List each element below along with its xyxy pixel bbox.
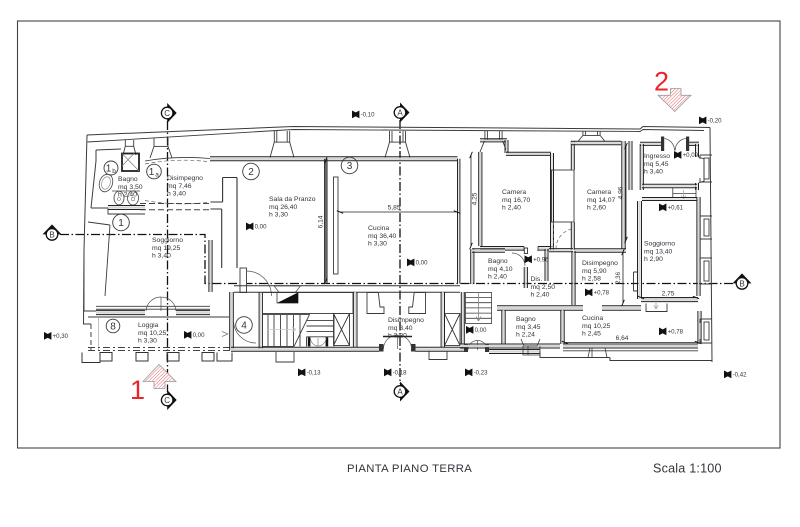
svg-text:4,96: 4,96 [618, 186, 625, 199]
elevation -0,20 [699, 117, 722, 125]
svg-text:Bagno: Bagno [118, 176, 138, 183]
svg-text:a: a [155, 172, 159, 179]
svg-text:h 2,60: h 2,60 [587, 205, 606, 212]
elevation +0,09 [674, 151, 699, 159]
svg-text:+0,78: +0,78 [594, 290, 610, 297]
section marker C top [161, 103, 176, 123]
vault dashed curve top [145, 160, 207, 164]
outer wall top (double slanted) [87, 127, 710, 136]
Ingresso north wall west bit [640, 143, 663, 145]
svg-text:+0,96: +0,96 [533, 257, 549, 264]
Camera1 north wall low part [506, 153, 551, 155]
svg-text:0,00: 0,00 [193, 332, 205, 339]
demolition dashed band below disimpegno [140, 204, 210, 210]
svg-text:Disimpegno: Disimpegno [167, 175, 203, 182]
stepped wall between Disimpegno and Sala [211, 178, 238, 269]
extra sill line under cucina right [563, 350, 698, 352]
wall Sala/Cucina divider [325, 159, 327, 284]
dimension 6,64 [562, 335, 701, 346]
Loggia left dashed edge [90, 324, 92, 351]
label Camera 14,07 [587, 189, 616, 212]
Soggiorno south wall west part [96, 311, 145, 313]
svg-text:B: B [739, 279, 744, 288]
elevation 0,00 loggia [184, 331, 205, 339]
wall under Bagno fixtures [108, 206, 145, 208]
porch step below stairs [276, 352, 294, 362]
svg-text:h 3,30: h 3,30 [269, 212, 288, 219]
svg-text:h 3,20: h 3,20 [388, 333, 407, 340]
Bagno4,10 east wall [525, 267, 527, 288]
door arc room 4 from Loggia [234, 321, 257, 344]
svg-text:h 2,90: h 2,90 [644, 256, 663, 263]
svg-text:+0,61: +0,61 [668, 205, 684, 212]
svg-text:+0,09: +0,09 [683, 152, 699, 159]
Bagno4,10 west wall [471, 249, 473, 284]
svg-text:mq 19,25: mq 19,25 [152, 245, 181, 252]
svg-text:mq 14,07: mq 14,07 [587, 197, 616, 204]
outer south wall right section [540, 352, 712, 361]
washbasin oval [97, 172, 115, 193]
Camera1 south wall [480, 247, 524, 249]
step below A axis [429, 352, 447, 360]
section marker C bottom [161, 390, 176, 410]
svg-text:2,75: 2,75 [662, 291, 675, 298]
svg-text:C: C [164, 396, 170, 405]
wall west of Bagno 3,45 [503, 310, 505, 344]
room number 8 [106, 319, 120, 333]
svg-text:h 3,40: h 3,40 [152, 253, 171, 260]
outer wall right [710, 128, 712, 363]
elevation +0,78 a [585, 289, 610, 297]
stair landing rectangle [263, 293, 354, 314]
stair flight A treads [263, 315, 311, 347]
svg-text:h 3,30: h 3,30 [138, 338, 157, 345]
svg-text:B: B [49, 230, 54, 239]
elevation -0,18 [384, 369, 407, 377]
svg-text:Disimpegno: Disimpegno [388, 317, 424, 324]
elevation -0,23 [465, 369, 488, 377]
closet shaft between cameras [552, 170, 575, 222]
svg-text:5,85: 5,85 [388, 205, 401, 212]
svg-text:PIANTA PIANO TERRA: PIANTA PIANO TERRA [347, 463, 472, 475]
wall between shaft and small stair [462, 292, 464, 344]
entry double door arcs pointed [665, 139, 686, 151]
loggia pillar d [202, 353, 214, 362]
dimension 4,25 [468, 152, 479, 249]
window right wall at Soggiorno lower [700, 258, 712, 284]
svg-text:mq 7,46: mq 7,46 [167, 183, 192, 190]
Camera2 west wall top [572, 141, 574, 170]
wall Soggiorno east [210, 240, 212, 292]
svg-text:-0,42: -0,42 [733, 372, 748, 379]
wall Disimpegno/Soggiorno [638, 201, 640, 299]
Ingresso south wall [642, 185, 697, 187]
elevation +0,78 b [659, 328, 684, 336]
chimney flue above Sala da Pranzo [270, 131, 294, 158]
cavity wall left of ingresso [630, 141, 632, 190]
Camera2 west wall bottom [572, 222, 574, 250]
Disimpegno5,90 north wall [549, 249, 573, 251]
Camera1 south wall east bit [538, 247, 553, 249]
Loggia bottom dashed edge with pillars [88, 348, 230, 351]
svg-text:1: 1 [118, 218, 124, 229]
svg-text:h 3,40: h 3,40 [167, 191, 186, 198]
label Disimpegno 5,90 [582, 260, 618, 283]
section line A-A vertical [399, 120, 401, 384]
section marker A bottom [394, 382, 409, 402]
label Cucina 36,40 [368, 225, 397, 248]
room number 1b [104, 161, 118, 175]
svg-text:h 3,40: h 3,40 [644, 169, 663, 176]
svg-text:h 2,40: h 2,40 [531, 292, 550, 299]
svg-text:Scala 1:100: Scala 1:100 [653, 462, 722, 476]
svg-text:-0,23: -0,23 [474, 370, 489, 377]
Ingresso west wall [641, 144, 643, 190]
elevation +0,30 [44, 332, 69, 340]
Camera2 east wall [623, 141, 625, 249]
small stair right treads [466, 293, 492, 324]
svg-text:-0,20: -0,20 [708, 118, 723, 125]
section line B-B jogged [60, 235, 734, 284]
svg-text:A: A [397, 387, 403, 396]
svg-text:3: 3 [347, 161, 353, 172]
wall Bagno/Cucina [562, 310, 564, 344]
Soggiorno west slanted wall [84, 222, 110, 311]
room number 4 [236, 317, 253, 334]
wall north of Cucina right [602, 307, 641, 310]
label Disimpegno 3,40 [388, 317, 424, 340]
svg-text:mq 10,25: mq 10,25 [582, 323, 611, 330]
window right wall at Ingresso [700, 155, 712, 182]
niche fixture 1 [367, 293, 384, 314]
window right wall at Cucina [700, 319, 712, 343]
svg-text:h 2,40: h 2,40 [502, 205, 521, 212]
svg-text:-0,18: -0,18 [393, 370, 408, 377]
south wall east of main door [415, 348, 465, 350]
svg-text:-0,13: -0,13 [307, 370, 322, 377]
svg-text:6,14: 6,14 [318, 215, 325, 228]
svg-text:0,00: 0,00 [475, 327, 487, 334]
label Camera 16,70 [502, 189, 531, 212]
elevation +0,61 [659, 204, 684, 212]
drawing border frame [18, 21, 781, 448]
wall band below B axis (stair hall north) [234, 286, 460, 292]
svg-text:+0,30: +0,30 [53, 333, 69, 340]
wc bowl 1 [114, 191, 124, 205]
svg-text:1: 1 [130, 375, 145, 405]
dimension 4,96 [618, 143, 630, 243]
svg-text:Soggiorno: Soggiorno [152, 237, 183, 244]
Soggiorno east wall [698, 197, 700, 296]
svg-text:1: 1 [149, 167, 155, 178]
label Bagno 3,45 [516, 316, 541, 339]
chimney flue above Cucina [385, 131, 410, 158]
door jamb stub Bagno/Dis [524, 248, 527, 254]
label Bagno 3,50 [118, 176, 143, 199]
Soggiorno north wall [642, 198, 697, 200]
outer wall left [84, 135, 92, 324]
stair flight B treads [307, 315, 335, 347]
svg-text:h 2,40: h 2,40 [118, 192, 137, 199]
label Bagno 4,10 [488, 258, 513, 281]
svg-text:mq 10,25: mq 10,25 [138, 330, 167, 337]
splayed step under Cucina right [588, 348, 607, 358]
elevation -0,10 [352, 111, 375, 119]
svg-text:mq 3,40: mq 3,40 [388, 325, 413, 332]
svg-text:Camera: Camera [587, 189, 611, 196]
elevation -0,42 [724, 371, 747, 379]
red hatched arrow 1 (up) [143, 365, 176, 389]
svg-text:+0,78: +0,78 [668, 329, 684, 336]
Disimpegno5,90 west wall [573, 251, 575, 305]
2,36 dimension [615, 249, 626, 306]
svg-text:6,64: 6,64 [616, 335, 629, 342]
Soggiorno south double door arcs [146, 297, 176, 311]
door leaf Sala west door [240, 268, 247, 293]
section line C-C vertical [167, 121, 169, 392]
svg-text:Loggia: Loggia [138, 322, 159, 329]
ingresso east door niche bulge [699, 157, 705, 183]
section marker B right [733, 273, 752, 289]
svg-text:Cucina: Cucina [368, 225, 389, 232]
label Ingresso [644, 153, 670, 176]
vault dashed curve bottom [145, 201, 207, 204]
south wall east of right door [489, 350, 540, 352]
loggia corner block SW [82, 353, 100, 363]
Ingresso east wall bottom [696, 183, 698, 190]
Camera1 north jog wall [506, 140, 508, 153]
loggia pillar b [136, 353, 148, 362]
Loggia top wall [88, 316, 229, 318]
passage cells below ingresso [673, 188, 696, 197]
svg-text:mq 3,50: mq 3,50 [118, 184, 143, 191]
svg-text:h 2,24: h 2,24 [516, 332, 535, 339]
small chevron loggia [222, 332, 228, 337]
wall stairhall east [354, 292, 356, 347]
label Loggia [138, 322, 167, 345]
svg-text:h 2,58: h 2,58 [582, 276, 601, 283]
svg-text:b: b [112, 168, 116, 175]
wall north of Bagno 3,45 [497, 307, 583, 310]
svg-text:Cucina: Cucina [582, 315, 603, 322]
bagno sink fixture [521, 339, 540, 346]
loggia corner block SE [217, 353, 232, 362]
small flue above Disimpegno [150, 138, 172, 158]
shaft X box 2 [445, 314, 461, 346]
south wall under Bagno 3,45 [460, 345, 560, 347]
svg-text:mq 16,70: mq 16,70 [502, 197, 531, 204]
Camera2 north wall [571, 142, 621, 144]
wc bowl 2 (bidet) [128, 191, 139, 205]
Ingresso north wall east bit [687, 143, 699, 145]
wall east of Camera1 [551, 153, 553, 250]
room number 3 [341, 157, 358, 174]
svg-text:Ingresso: Ingresso [644, 153, 670, 160]
stair bottom double door arcs [310, 338, 326, 346]
svg-text:2: 2 [248, 167, 254, 178]
main entrance double door [379, 344, 384, 352]
svg-text:h 3,30: h 3,30 [368, 241, 387, 248]
passage arrow ingresso->soggiorno [681, 190, 685, 200]
chimney flue above Camera 16,70 [480, 131, 507, 152]
svg-text:h 2,40: h 2,40 [488, 274, 507, 281]
red hatched arrow 2 (down) [658, 89, 691, 112]
svg-text:2: 2 [654, 67, 669, 97]
entry door jambs [661, 137, 664, 152]
Soggiorno south wall [641, 299, 698, 301]
pilaster strip in Cucina [334, 177, 339, 274]
sill lines under Soggiorno south wall [96, 306, 210, 309]
elevation 0,00 sala [246, 223, 267, 231]
dashed door arc below shaft [556, 229, 572, 249]
svg-text:mq 3,45: mq 3,45 [516, 324, 541, 331]
inner top wall Sala/Cucina [210, 158, 458, 160]
label Soggiorno 19,25 [152, 237, 183, 260]
svg-text:8: 8 [110, 322, 116, 333]
svg-text:Bagno: Bagno [488, 258, 508, 265]
wall Cucina east [458, 159, 460, 284]
wall Loggia east / room4 west [231, 292, 233, 350]
small down arrow [654, 300, 658, 309]
room number 2 [243, 163, 260, 180]
splayed niche above stair landing [274, 286, 301, 293]
section marker B left [43, 224, 62, 240]
svg-text:mq 2,50: mq 2,50 [531, 284, 556, 291]
door arc bagno [512, 253, 525, 266]
svg-text:mq 5,90: mq 5,90 [582, 268, 607, 275]
dimension 5,85 horizontal [337, 205, 460, 216]
svg-text:h 2,45: h 2,45 [582, 331, 601, 338]
Camera1 west wall [479, 152, 481, 246]
elevation 0,00 cucina [407, 259, 428, 267]
label Soggiorno 13,40 [644, 241, 675, 264]
door arc Sala west door [247, 271, 272, 296]
svg-text:Bagno: Bagno [516, 316, 536, 323]
label Dis 2,50 [531, 276, 556, 299]
room number 1a [147, 164, 162, 179]
loggia pillar c [167, 353, 179, 362]
svg-text:mq 4,10: mq 4,10 [488, 266, 513, 273]
small flue above Bagno [123, 140, 136, 155]
Cucina east wall [699, 311, 701, 344]
svg-text:C: C [164, 109, 170, 118]
label Disimpegno 7,46 [167, 175, 203, 198]
svg-text:1: 1 [106, 163, 112, 174]
dimension 2,75 [638, 291, 699, 301]
elevation -0,13 [298, 369, 321, 377]
svg-text:Camera: Camera [502, 189, 526, 196]
fixtures back band [112, 190, 140, 192]
svg-text:mq 13,40: mq 13,40 [644, 248, 673, 255]
stair direction marker black triangle [277, 293, 298, 304]
svg-text:mq 5,45: mq 5,45 [644, 161, 669, 168]
svg-text:0,00: 0,00 [416, 260, 428, 267]
shower box [122, 154, 139, 172]
svg-text:4,25: 4,25 [472, 192, 479, 205]
svg-text:4: 4 [241, 321, 247, 332]
niche fixture 2 [409, 293, 426, 314]
corridor trapezoid cucina top [646, 304, 667, 312]
elevation 0,00 stair [466, 326, 487, 334]
niche west of Soggiorno wall [634, 272, 638, 291]
right small double door [464, 344, 468, 352]
lift shaft X box 1 [334, 314, 350, 346]
svg-text:-0,10: -0,10 [361, 112, 376, 119]
svg-text:Soggiorno: Soggiorno [644, 241, 675, 248]
Soggiorno south wall east part [176, 311, 210, 313]
south wall west of main door [231, 348, 379, 350]
camera1 south door notch [524, 247, 538, 252]
window right wall at Soggiorno upper [700, 216, 712, 239]
label Cucina 10,25 [582, 315, 611, 338]
svg-text:Sala da Pranzo: Sala da Pranzo [269, 196, 316, 203]
svg-text:mq 26,40: mq 26,40 [269, 204, 298, 211]
loggia pillar a [100, 353, 112, 362]
dimension 6,14 vertical [318, 157, 329, 284]
Dis east wall [546, 249, 548, 281]
south wall under Cucina right [563, 345, 698, 347]
svg-text:0,00: 0,00 [255, 224, 267, 231]
room number 1 [113, 214, 130, 231]
svg-text:Disimpegno: Disimpegno [582, 260, 618, 267]
chimney flue above Camera 14,07 [578, 131, 605, 142]
wall room4 east / stairhall west [260, 292, 262, 350]
stair bottom door jambs [308, 337, 311, 346]
wall disimpegno east [442, 292, 444, 347]
Camera1 north wall high part [480, 139, 507, 141]
svg-text:A: A [397, 108, 403, 117]
label Sala da Pranzo [269, 196, 316, 219]
svg-text:Dis.: Dis. [531, 276, 543, 283]
elevation +0,96 [525, 255, 550, 263]
step below bagno [523, 346, 540, 355]
section marker A top [394, 103, 409, 123]
svg-text:mq 36,40: mq 36,40 [368, 233, 397, 240]
svg-text:2,36: 2,36 [615, 271, 622, 284]
Ingresso east wall top [696, 144, 698, 157]
Bagno4,10 north wall [472, 250, 505, 252]
Bagno 1b outline walls [91, 150, 96, 208]
Camera2 south wall [574, 250, 626, 252]
